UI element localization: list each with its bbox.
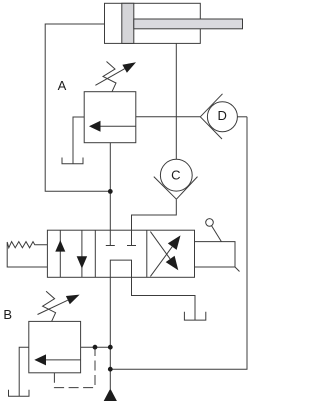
- svg-text:A: A: [58, 78, 67, 93]
- svg-text:B: B: [3, 307, 12, 322]
- svg-text:D: D: [218, 108, 227, 123]
- svg-text:C: C: [171, 167, 180, 182]
